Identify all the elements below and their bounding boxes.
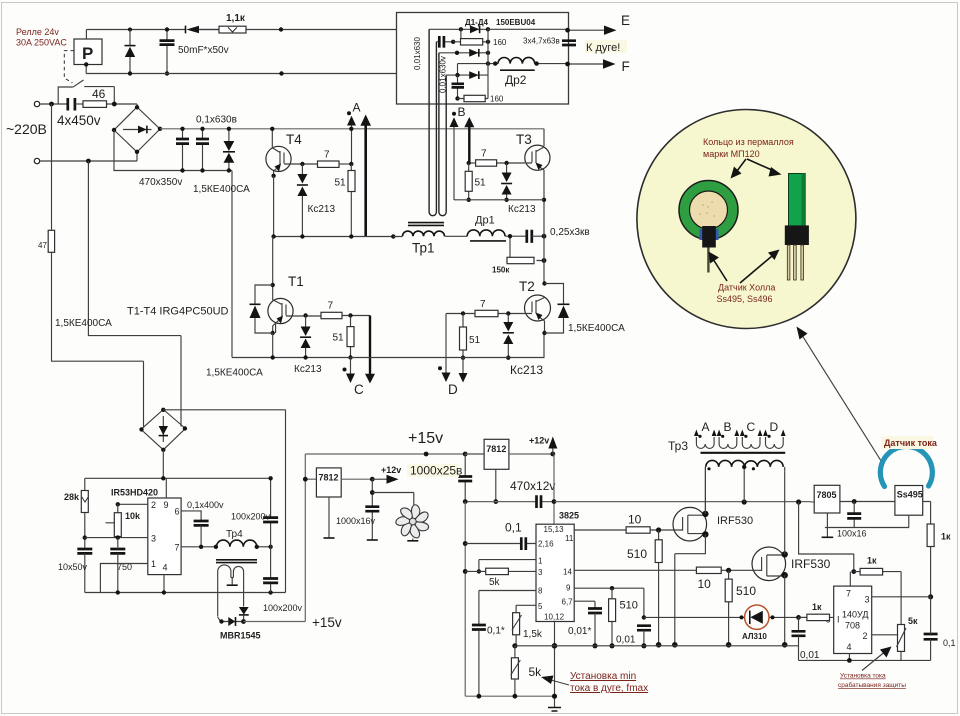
svg-text:9: 9	[164, 500, 169, 510]
resistor 510 pin9	[609, 588, 616, 648]
trimmer 5k lower	[511, 646, 521, 699]
hall sensor package green	[785, 174, 809, 246]
node dots cap 50mF	[165, 27, 169, 75]
svg-text:Установка тока: Установка тока	[840, 673, 886, 680]
capacitor 100x200v lower	[263, 547, 278, 593]
svg-text:6: 6	[175, 507, 180, 517]
wire R46 to bridge	[107, 103, 138, 105]
resistor 1,1k	[219, 26, 246, 33]
node C phase dot	[343, 368, 347, 372]
svg-text:+12v: +12v	[381, 465, 401, 475]
svg-text:3: 3	[151, 534, 156, 544]
label Datchik Holla	[717, 283, 776, 305]
resistor 7 T2	[475, 310, 498, 316]
svg-text:АЛ310: АЛ310	[742, 632, 767, 641]
arrow to 5k	[541, 676, 569, 686]
T3 emitter rail	[454, 199, 544, 201]
svg-text:51: 51	[475, 178, 487, 189]
IC 7805	[814, 485, 840, 513]
capacitor 470x350v a	[176, 129, 189, 171]
resistor 51 T4	[348, 164, 355, 237]
svg-text:47: 47	[38, 241, 47, 250]
rail 12v mid	[463, 499, 555, 504]
label 1000x25v	[407, 464, 462, 478]
svg-text:Кс213: Кс213	[508, 204, 536, 215]
supply rail IR53	[85, 476, 271, 480]
Tr3 winding B	[717, 430, 740, 449]
wire opamp pin4	[847, 654, 852, 663]
hall sensor pins	[787, 245, 803, 280]
svg-text:+12v: +12v	[529, 436, 549, 446]
wire 7812a out	[341, 477, 374, 482]
svg-text:100x200v: 100x200v	[231, 512, 271, 522]
svg-text:46: 46	[92, 87, 106, 101]
svg-text:3825: 3825	[559, 511, 579, 521]
wire T3 gate	[497, 162, 533, 164]
wire pin 6,7	[574, 601, 595, 608]
svg-text:160: 160	[493, 38, 507, 47]
svg-text:К дуге!: К дуге!	[586, 42, 620, 54]
svg-text:51: 51	[333, 333, 345, 344]
wire top rail y29.5	[86, 29, 396, 31]
svg-text:+15v: +15v	[408, 430, 443, 447]
node D thin arrow	[459, 358, 468, 383]
node dot bus A	[349, 127, 353, 131]
svg-text:I: I	[837, 615, 840, 625]
capacitor 750	[110, 538, 125, 593]
svg-text:Датчик Холла: Датчик Холла	[718, 283, 775, 293]
trimmer 5k protect	[872, 625, 906, 661]
resistor 10 gate2	[696, 567, 721, 573]
label Datchik toka	[881, 436, 938, 449]
3825 pin labels	[538, 525, 574, 622]
label A B C D gates	[702, 420, 779, 434]
wire pin3	[85, 535, 148, 539]
resistor 160 row6	[458, 95, 489, 101]
svg-text:51: 51	[335, 178, 347, 189]
snubber cap row5	[452, 75, 465, 101]
svg-text:1,5КЕ400СА: 1,5КЕ400СА	[55, 318, 112, 329]
capacitor 100x16	[847, 502, 861, 528]
svg-text:1,1к: 1,1к	[226, 13, 246, 24]
svg-text:T2: T2	[519, 279, 535, 294]
label Koltso iz permalloya	[703, 137, 794, 159]
svg-text:0,01х630: 0,01х630	[413, 37, 422, 70]
MOSFET IRF530 no1	[673, 507, 709, 541]
resistor 510 gate1	[655, 530, 662, 648]
resistor 10k trimmer	[106, 504, 122, 537]
diode Tr4 aux	[239, 607, 249, 622]
wire rail to Tr1	[393, 235, 467, 237]
transistor T2 IGBT	[525, 281, 551, 335]
diode D1 row	[429, 25, 490, 33]
svg-text:Ss495, Ss496: Ss495, Ss496	[717, 294, 773, 304]
wire neutral to aux bridge	[88, 161, 181, 427]
wire cap to R46	[75, 103, 83, 105]
wire +15v from MBR	[244, 454, 306, 622]
aux bridge rectifier	[139, 408, 187, 452]
svg-text:5: 5	[538, 602, 543, 611]
svg-text:MBR1545: MBR1545	[220, 631, 261, 641]
trimmer 1,5k pin5	[512, 605, 536, 648]
bottom emitter bus	[232, 355, 545, 359]
svg-text:510: 510	[736, 584, 756, 598]
svg-text:1,5КЕ400СА: 1,5КЕ400СА	[206, 368, 263, 379]
svg-text:6,7: 6,7	[562, 598, 574, 607]
svg-text:0,1: 0,1	[505, 521, 522, 535]
node dot T4 gate zener	[300, 162, 304, 166]
node B dot	[452, 112, 456, 116]
svg-text:Ss495: Ss495	[897, 490, 923, 500]
resistor 46	[83, 101, 107, 108]
secondary hairpin w2	[439, 53, 446, 216]
svg-text:0,01: 0,01	[616, 635, 636, 646]
svg-text:7812: 7812	[319, 473, 339, 483]
input terminal N	[34, 158, 137, 163]
svg-text:Тр4: Тр4	[226, 529, 243, 540]
transformer Tr1 primary	[403, 231, 445, 236]
svg-text:160: 160	[490, 95, 504, 104]
inset arrow to ring sensor	[709, 252, 728, 282]
svg-text:+15v: +15v	[312, 615, 342, 630]
svg-text:7: 7	[481, 149, 487, 160]
resistor 7 T1	[321, 312, 342, 318]
mid rail left	[271, 176, 395, 239]
resistor 51 T1	[347, 316, 354, 360]
svg-text:510: 510	[620, 600, 638, 612]
diode VD2 (series, points left)	[186, 26, 220, 34]
Tr3 winding D	[763, 430, 786, 449]
svg-text:9: 9	[566, 584, 571, 593]
capacitor 0,1*	[472, 625, 486, 699]
inductor Dr1	[467, 230, 506, 241]
wire Ss495 out	[923, 502, 931, 525]
transformer Tr4 secondary	[218, 565, 244, 617]
svg-text:P: P	[82, 44, 93, 63]
LED row wire	[644, 615, 807, 620]
svg-text:Кс213: Кс213	[294, 364, 322, 375]
inset arrow to package	[740, 250, 780, 284]
node D thick arrow	[442, 373, 451, 383]
ring core green	[679, 181, 738, 240]
Tr3 core	[701, 452, 786, 454]
node dot bypass join	[112, 102, 117, 107]
wire Dr1 to cap	[505, 235, 526, 237]
svg-text:3: 3	[538, 568, 543, 577]
wire aux dc plus	[162, 450, 164, 479]
wire pin 11 gate1	[574, 529, 675, 531]
capacitor 0,1 right	[924, 597, 938, 661]
node B thick arrow	[464, 117, 474, 164]
zener Ks213 T2	[503, 314, 514, 360]
wire pin 14 gate2	[574, 569, 753, 571]
capacitor 100x200v upper	[263, 476, 278, 547]
svg-text:4: 4	[163, 563, 168, 573]
inset circle permalloy	[637, 110, 856, 329]
svg-text:51: 51	[469, 335, 481, 346]
wire T1 gate	[286, 315, 321, 317]
svg-text:3х4,7х63в: 3х4,7х63в	[523, 37, 560, 46]
svg-text:510: 510	[627, 547, 647, 561]
output module box	[397, 13, 569, 105]
capacitor 0,1 pwm	[521, 537, 526, 550]
rail Y1 signal gnd	[515, 646, 931, 661]
wire 7812a input	[303, 477, 317, 482]
wire D1 row to E bus	[488, 28, 568, 30]
capacitor 0,01 pin9	[637, 615, 651, 648]
wire live to aux bridge	[52, 252, 144, 427]
wire right leg x544	[543, 129, 545, 358]
wire pin 10,12	[552, 622, 558, 708]
Tr4 center tap ground	[227, 578, 238, 586]
svg-text:F: F	[622, 59, 630, 74]
IC 3825 box	[536, 524, 574, 621]
resistor 160 row2	[453, 39, 490, 45]
resistor 51 T3	[465, 163, 472, 202]
wire DC plus bus y128.2	[160, 128, 544, 130]
svg-text:150к: 150к	[492, 266, 510, 275]
svg-text:15,13: 15,13	[544, 525, 565, 534]
wire Vcc drop 3825	[552, 454, 557, 524]
svg-text:7: 7	[324, 150, 330, 161]
node A thick arrow	[360, 115, 371, 237]
svg-text:T1-T4 IRG4PC50UD: T1-T4 IRG4PC50UD	[127, 306, 229, 318]
relay contact arm	[73, 80, 84, 87]
svg-text:Релле 24v: Релле 24v	[16, 27, 59, 37]
wire pin9 row	[574, 586, 644, 617]
svg-text:T1: T1	[288, 274, 304, 289]
wire opamp pin7	[850, 569, 856, 586]
svg-text:0,1x400v: 0,1x400v	[187, 500, 224, 510]
svg-text:7: 7	[846, 589, 851, 599]
bridge rectifier VD3 (mains)	[112, 104, 162, 161]
Tr3 winding C	[740, 430, 763, 449]
resistor 7 T4	[318, 161, 340, 167]
wire pin7	[181, 545, 218, 549]
wire R7 T2 to corner	[446, 314, 475, 375]
wire 7812b gnd	[493, 469, 498, 504]
capacitor 1000x16v	[365, 479, 379, 540]
node A thin arrow	[347, 116, 356, 164]
node D phase dot	[438, 366, 442, 370]
bypass contact loop	[58, 87, 114, 104]
svg-text:7: 7	[328, 301, 334, 312]
svg-text:D: D	[770, 420, 779, 434]
wire R7 T3 left	[469, 162, 476, 164]
wire IRF1 source	[672, 534, 705, 647]
capacitor 3x4,7x63v	[523, 37, 576, 46]
svg-text:7812: 7812	[486, 444, 506, 454]
IC 7812 b	[465, 439, 509, 469]
resistor 1k feedback	[854, 568, 901, 624]
svg-text:E: E	[621, 13, 630, 28]
node dot T3 gate net	[467, 161, 471, 165]
svg-text:708: 708	[845, 621, 860, 631]
svg-text:C: C	[354, 382, 364, 397]
node C thin arrow	[346, 358, 355, 384]
wire relay top stub	[85, 30, 87, 40]
node B thin arrow	[450, 117, 459, 200]
secondary hairpin w1	[429, 29, 436, 215]
wire Ss495 gnd pin	[908, 515, 910, 527]
transformer Tr4 primary	[217, 540, 273, 549]
svg-text:3: 3	[865, 595, 870, 605]
node dot T2 gate net	[461, 311, 465, 315]
ground symbol 3825	[548, 708, 561, 712]
wire R7 to node	[339, 163, 352, 165]
MOSFET IRF530 no2	[752, 547, 788, 581]
svg-text:5k: 5k	[529, 665, 543, 679]
input terminal L	[34, 101, 67, 106]
svg-text:7805: 7805	[817, 490, 837, 500]
relay K1 label	[16, 27, 67, 48]
wire DC minus from bridge	[114, 130, 232, 358]
wire Tr3 primary left to IRF1 drain	[704, 467, 706, 514]
sensor Ss495 box	[895, 486, 923, 516]
+12v arrow b	[548, 437, 557, 455]
svg-text:140УД: 140УД	[842, 610, 868, 620]
resistor 28k	[81, 478, 88, 549]
Tr3 primary	[706, 460, 783, 470]
node dot neutral	[86, 159, 91, 164]
svg-text:7: 7	[480, 299, 486, 310]
svg-text:0,25х3кв: 0,25х3кв	[550, 227, 590, 238]
resistor 1k sense	[927, 524, 934, 599]
svg-text:T4: T4	[286, 132, 302, 147]
IC pin numbers	[151, 500, 180, 573]
svg-text:50mF*x50v: 50mF*x50v	[178, 45, 229, 56]
wire Tr3 center tap	[742, 465, 746, 502]
label K duge	[585, 40, 627, 54]
wire pin2	[116, 502, 148, 506]
resistor 510 gate2	[725, 570, 732, 647]
svg-text:IR53HD420: IR53HD420	[111, 488, 158, 498]
wire pin4	[163, 575, 165, 593]
svg-text:Др2: Др2	[505, 73, 527, 87]
svg-text:1,5k: 1,5k	[523, 629, 543, 640]
svg-text:2: 2	[863, 631, 868, 641]
svg-text:0,1*: 0,1*	[487, 626, 505, 637]
svg-text:1,5КЕ400СА: 1,5КЕ400СА	[568, 323, 625, 334]
blue current sensor arc	[880, 446, 932, 486]
svg-text:10: 10	[698, 577, 712, 591]
capacitor 470x12v	[537, 495, 542, 508]
transformer Tr4 core	[216, 560, 257, 563]
svg-text:A: A	[702, 420, 710, 434]
diode D3 row	[446, 64, 488, 79]
inset pointer line	[800, 332, 883, 464]
svg-text:~220В: ~220В	[6, 121, 47, 137]
svg-text:Тр1: Тр1	[412, 241, 435, 256]
inset label arrow left	[731, 159, 747, 179]
svg-text:28k: 28k	[64, 492, 80, 502]
node dots filter caps	[180, 127, 204, 173]
node dot T2 zener	[506, 311, 510, 315]
resistor 1k pin6	[799, 614, 834, 620]
svg-text:5к: 5к	[908, 616, 918, 626]
zener Ks213 T3	[501, 163, 512, 202]
svg-text:D: D	[448, 382, 458, 397]
svg-text:8: 8	[538, 587, 543, 596]
svg-text:150EBU04: 150EBU04	[496, 18, 536, 27]
capacitor 0,01*	[588, 609, 602, 649]
hall sensor on ring	[700, 226, 719, 273]
wire pin 1	[477, 560, 536, 574]
capacitor 0,25x3kv	[527, 230, 547, 243]
svg-text:Установка min: Установка min	[570, 671, 636, 682]
svg-text:B: B	[724, 420, 732, 434]
TVS 1,5KE400CA bus	[223, 127, 235, 173]
capacitor 1000x25v	[458, 454, 472, 501]
svg-text:100x200v: 100x200v	[263, 603, 303, 613]
wire T1 emitter	[272, 333, 274, 358]
node dot gate2	[726, 568, 731, 573]
resistor 7 T3	[476, 160, 497, 166]
wire +12v to opamp V+	[799, 502, 854, 572]
svg-text:14: 14	[563, 568, 572, 577]
svg-text:срабатывания защиты: срабатывания защиты	[838, 681, 906, 689]
LED AL310	[745, 605, 769, 629]
capacitor 50mF*x50v	[160, 30, 175, 74]
svg-text:0,01*: 0,01*	[568, 626, 591, 637]
wire pin 2,16	[465, 543, 536, 545]
svg-text:7: 7	[175, 543, 180, 553]
resistor 51 T2	[460, 314, 467, 360]
svg-text:2,16: 2,16	[538, 540, 554, 549]
svg-text:тока в дуге, fmax: тока в дуге, fmax	[570, 683, 648, 694]
node dot T3 zener	[504, 161, 508, 165]
output F arrow	[565, 59, 615, 68]
svg-text:10x50v: 10x50v	[58, 562, 88, 572]
svg-text:0,1х630в: 0,1х630в	[196, 115, 237, 126]
wire 7805 gnd	[822, 513, 909, 537]
svg-text:30A 250VAC: 30A 250VAC	[16, 38, 67, 48]
svg-text:IRF530: IRF530	[791, 557, 831, 571]
relay K1 coil box P	[74, 39, 102, 65]
wire 7812b out	[509, 452, 555, 457]
wire relay bottom rail y73.5	[86, 64, 396, 73]
svg-text:10k: 10k	[125, 511, 141, 521]
snubber cap row2	[436, 29, 461, 47]
svg-text:4: 4	[847, 642, 852, 652]
+15v rail	[305, 452, 484, 457]
wire pin9	[165, 478, 167, 498]
output E arrow	[565, 26, 616, 35]
Tr3 winding A	[694, 430, 717, 449]
diode MBR1545	[218, 617, 246, 626]
svg-text:Тр3: Тр3	[668, 439, 688, 453]
node dot diode top	[128, 28, 132, 32]
wire R7 T1 to node	[342, 316, 370, 370]
wire opamp pin3	[872, 596, 931, 598]
wire IRF1 drain	[704, 467, 706, 514]
diode VD1 (relay clamp, vertical)	[125, 30, 136, 74]
resistor 10 gate1	[626, 527, 650, 533]
svg-text:Датчик тока: Датчик тока	[884, 438, 938, 448]
wire 7805 out	[840, 499, 896, 504]
vertical bus x465	[463, 502, 555, 697]
transistor T4 IGBT	[266, 127, 291, 178]
svg-text:1: 1	[538, 557, 543, 566]
wire 7805 input	[799, 501, 815, 503]
TVS diode T1	[250, 285, 273, 333]
node A dot	[347, 111, 351, 115]
+12v arrow a	[372, 475, 398, 484]
fan	[395, 505, 430, 541]
svg-text:1к: 1к	[941, 532, 951, 542]
diode D2 row	[439, 49, 490, 57]
svg-text:A: A	[353, 101, 361, 115]
